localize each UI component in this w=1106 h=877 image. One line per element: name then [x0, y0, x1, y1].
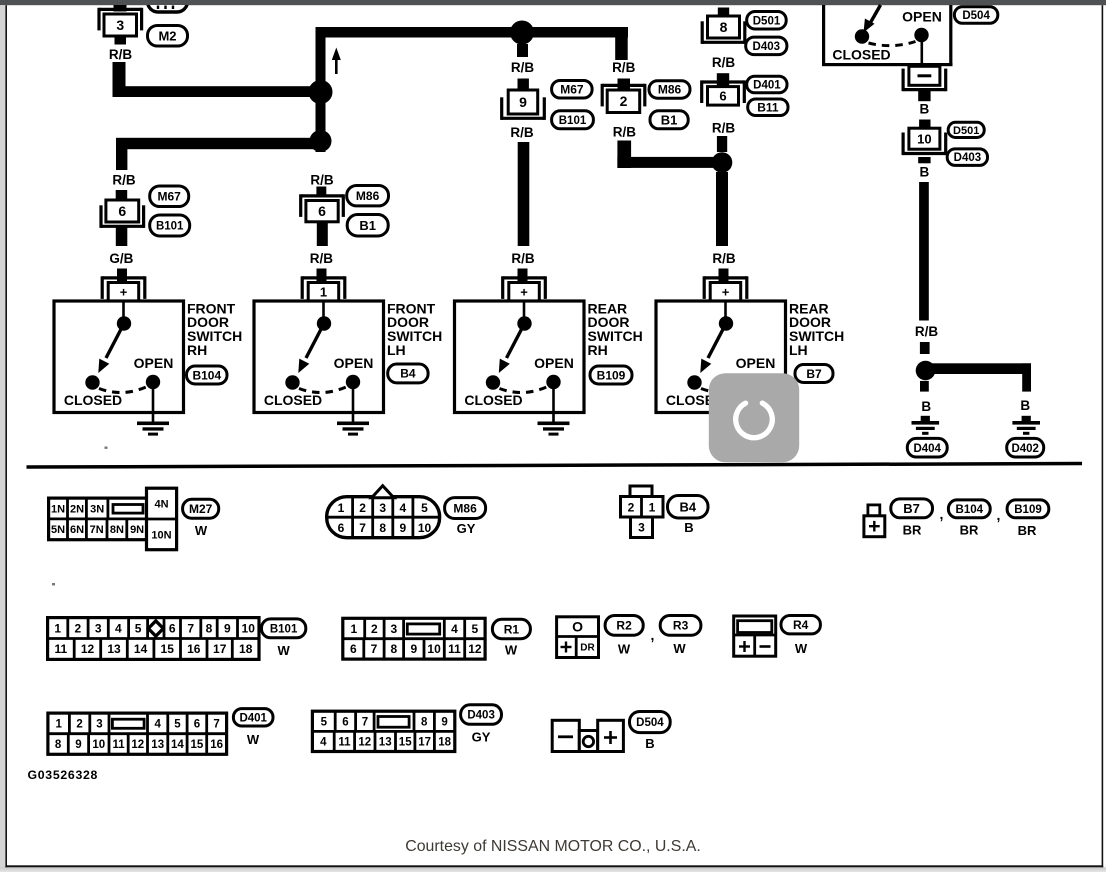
svg-text:15: 15 — [161, 642, 175, 656]
svg-text:LH: LH — [789, 342, 808, 358]
svg-text:B101: B101 — [156, 221, 184, 233]
svg-text:8: 8 — [55, 739, 62, 751]
connector ref D403 lower — [947, 149, 987, 166]
svg-text:6: 6 — [350, 642, 357, 656]
svg-text:9: 9 — [399, 521, 406, 535]
arrow marker up — [335, 56, 338, 74]
junction dot A1 — [309, 80, 333, 104]
svg-text:9: 9 — [441, 716, 447, 728]
svg-text:3: 3 — [96, 719, 102, 731]
connector ref B109 — [590, 366, 632, 384]
connector ref D404 — [907, 438, 947, 457]
svg-text:M86: M86 — [453, 501, 477, 515]
svg-text:B11: B11 — [757, 101, 779, 115]
wire stub above connector 8 — [718, 8, 729, 17]
connector ref B11 — [748, 99, 788, 116]
svg-text:6N: 6N — [70, 524, 84, 536]
connector ref D401 bottom — [233, 709, 273, 726]
svg-text:12: 12 — [358, 737, 371, 749]
connector ref B109 bottom — [1007, 500, 1049, 518]
svg-text:W: W — [195, 523, 208, 538]
svg-text:R3: R3 — [673, 619, 689, 633]
svg-text:D403: D403 — [753, 41, 781, 53]
svg-text:1: 1 — [54, 621, 61, 635]
svg-text:M86: M86 — [658, 83, 682, 97]
svg-text:2: 2 — [76, 719, 82, 731]
svg-text:2: 2 — [359, 501, 366, 515]
connector ref B7 bottom — [891, 499, 933, 518]
svg-text:,: , — [997, 507, 1001, 523]
junction dot C — [916, 361, 936, 381]
svg-text:CLOSED: CLOSED — [64, 392, 122, 408]
svg-text:5: 5 — [135, 621, 142, 635]
svg-text:W: W — [618, 642, 631, 657]
dashed arc clipped switch — [869, 42, 916, 46]
connector face D403 — [312, 711, 454, 751]
svg-text:18: 18 — [438, 737, 451, 749]
wire stub into rear door switch RH — [518, 269, 528, 284]
svg-text:3: 3 — [391, 622, 398, 636]
svg-text:12: 12 — [468, 642, 482, 656]
svg-text:10N: 10N — [151, 529, 171, 541]
wire stub into front door switch LH — [317, 269, 327, 284]
svg-text:7: 7 — [371, 642, 378, 656]
svg-text:1: 1 — [649, 500, 656, 514]
svg-text:R/B: R/B — [310, 172, 334, 187]
svg-text:10: 10 — [418, 521, 432, 535]
connector ref R2 — [605, 616, 643, 636]
svg-text:15: 15 — [399, 737, 412, 749]
svg-text:14: 14 — [134, 642, 148, 656]
svg-text:12: 12 — [81, 642, 95, 656]
svg-text:B7: B7 — [903, 501, 920, 516]
svg-text:BR: BR — [1018, 523, 1037, 538]
svg-text:RH: RH — [187, 342, 207, 358]
svg-text:G/B: G/B — [109, 251, 133, 266]
connector M67/B101 pin 6 — [106, 200, 139, 222]
wire label R/B — [115, 36, 127, 45]
svg-text:7: 7 — [359, 521, 366, 535]
svg-text:D403: D403 — [467, 710, 495, 722]
svg-text:B: B — [920, 164, 930, 179]
wire below connector 6 left — [116, 227, 128, 246]
svg-text:M67: M67 — [158, 190, 182, 204]
svg-text:16: 16 — [210, 739, 223, 751]
separator line — [27, 462, 1083, 469]
svg-text:OPEN: OPEN — [134, 355, 174, 371]
svg-text:R/B: R/B — [712, 251, 736, 266]
svg-text:11: 11 — [448, 642, 461, 656]
svg-text:8: 8 — [379, 521, 386, 535]
wire stub below junction C — [920, 381, 929, 392]
svg-text:7: 7 — [187, 621, 194, 635]
svg-text:BR: BR — [960, 523, 979, 538]
svg-text:G03526328: G03526328 — [28, 768, 99, 782]
svg-text:+: + — [120, 285, 128, 300]
svg-text:5: 5 — [421, 501, 428, 515]
ground D402 — [1022, 416, 1031, 422]
stray mark 2 — [52, 583, 55, 585]
wire from junction A2 left to front door switch LH branch — [116, 138, 321, 149]
connector ref B104 bottom — [948, 500, 990, 518]
svg-text:R2: R2 — [616, 619, 632, 633]
loading spinner overlay — [709, 373, 799, 462]
svg-text:4: 4 — [320, 737, 327, 749]
connector ref R1 — [492, 619, 530, 638]
svg-text:B104: B104 — [192, 368, 221, 382]
svg-text:11: 11 — [55, 642, 68, 656]
connector ref D401 — [747, 76, 787, 93]
connector ref M86 — [347, 186, 389, 206]
svg-text:B4: B4 — [679, 499, 696, 514]
svg-text:R/B: R/B — [712, 121, 736, 136]
svg-text:3: 3 — [116, 17, 124, 33]
junction dot A2 — [310, 130, 332, 152]
svg-text:9: 9 — [224, 621, 231, 635]
svg-text:2: 2 — [628, 500, 635, 514]
wire from junction C right and down — [926, 363, 1032, 374]
svg-text:LH: LH — [387, 342, 406, 358]
wire stub into connector 9 — [518, 79, 529, 91]
svg-text:R/B: R/B — [109, 47, 133, 62]
wire below connector 6 center — [317, 222, 328, 246]
wire stub below junction — [517, 44, 528, 57]
connector face B4 — [630, 486, 652, 497]
svg-text:OPEN: OPEN — [334, 355, 374, 371]
connector face D401 — [48, 713, 227, 754]
svg-text:11: 11 — [338, 737, 351, 749]
wire stub into rear door switch LH — [719, 269, 729, 284]
svg-text:2N: 2N — [70, 503, 84, 515]
label FRONT DOOR SWITCH LH — [387, 300, 442, 358]
open contact dot — [914, 28, 928, 42]
connector D501/D403 pin 10 — [909, 128, 940, 149]
connector face M27 — [49, 498, 148, 540]
svg-text:10: 10 — [242, 621, 256, 635]
svg-text:B109: B109 — [1014, 504, 1042, 516]
svg-text:16: 16 — [187, 642, 201, 656]
svg-text:,: , — [940, 506, 944, 522]
connector M2 pin 3 — [99, 8, 142, 11]
svg-text:7N: 7N — [90, 524, 104, 536]
svg-text:6: 6 — [342, 716, 348, 728]
svg-text:9: 9 — [75, 739, 81, 751]
top bus wire — [316, 27, 629, 38]
svg-text:14: 14 — [171, 739, 184, 751]
svg-text:B: B — [920, 101, 930, 116]
connector face B101 — [48, 618, 259, 660]
connector minus pin — [909, 66, 940, 85]
svg-text:R4: R4 — [793, 618, 809, 632]
wire from connector 2 to junction B — [617, 141, 631, 169]
connector ref M2 — [148, 26, 188, 47]
wire stub into connector 6 center — [316, 187, 326, 197]
connector ref B101 — [150, 215, 190, 236]
svg-text:8: 8 — [206, 621, 213, 635]
svg-text:R/B: R/B — [511, 251, 535, 266]
connector ref B4 — [388, 364, 428, 383]
svg-text:OPEN: OPEN — [534, 355, 574, 371]
svg-text:8N: 8N — [110, 524, 124, 536]
svg-text:3N: 3N — [90, 503, 104, 515]
svg-text:4: 4 — [115, 621, 122, 635]
svg-text:B109: B109 — [597, 368, 626, 382]
connector ref B4 bottom — [668, 496, 709, 519]
svg-text:O: O — [572, 619, 583, 635]
svg-text:2: 2 — [371, 622, 378, 636]
svg-text:7: 7 — [213, 719, 219, 731]
svg-text:+: + — [520, 285, 528, 300]
svg-text:8: 8 — [720, 19, 728, 35]
wire from open contact to minus connector — [920, 42, 923, 64]
svg-text:M27: M27 — [189, 502, 213, 516]
svg-text:11: 11 — [113, 739, 126, 751]
clipped switch box top right — [822, 5, 825, 66]
svg-text:OPEN: OPEN — [902, 9, 942, 25]
ground D404 — [921, 416, 930, 422]
svg-text:5: 5 — [174, 719, 181, 731]
svg-text:CLOSED: CLOSED — [264, 392, 322, 408]
connector ref D501 lower — [948, 122, 984, 137]
svg-text:R/B: R/B — [112, 172, 136, 187]
svg-text:17: 17 — [213, 642, 227, 656]
svg-text:6: 6 — [169, 621, 176, 635]
svg-text:10: 10 — [427, 642, 441, 656]
switch body FRONT RH — [54, 301, 184, 413]
junction dot B — [712, 152, 733, 173]
connector ref D501 — [747, 12, 787, 30]
svg-text:Courtesy of NISSAN MOTOR CO.,: Courtesy of NISSAN MOTOR CO., U.S.A. — [405, 838, 701, 855]
connector ref D504 bottom — [630, 712, 671, 733]
svg-text:D402: D402 — [1011, 443, 1039, 455]
connector ref R3 — [660, 616, 701, 636]
svg-text:,: , — [651, 627, 655, 643]
svg-text:M2: M2 — [158, 28, 176, 43]
svg-text:1: 1 — [55, 719, 62, 731]
connector M67/B101 pin 9 — [508, 90, 538, 114]
svg-text:D501: D501 — [753, 15, 781, 27]
svg-text:B101: B101 — [270, 623, 298, 635]
connector ref D504 — [954, 7, 997, 24]
switch body REAR LH — [656, 301, 786, 413]
svg-text:M86: M86 — [356, 189, 380, 203]
svg-text:W: W — [795, 641, 808, 656]
svg-text:6: 6 — [719, 89, 726, 104]
junction dot on top bus — [510, 21, 534, 45]
svg-text:8: 8 — [421, 716, 428, 728]
wire stub to junction C — [920, 342, 930, 354]
connector face B7 battery symbol — [868, 505, 880, 516]
svg-text:5N: 5N — [51, 524, 65, 536]
svg-text:13: 13 — [107, 642, 121, 656]
svg-text:17: 17 — [418, 737, 431, 749]
svg-text:B1: B1 — [661, 112, 678, 127]
svg-text:W: W — [673, 641, 686, 656]
lever arrow in clipped switch — [871, 5, 881, 23]
wire from connector 3 down to junction bus — [113, 62, 126, 97]
bus vertical wire at node A — [316, 27, 326, 152]
connector pin + on REAR LH switch — [704, 276, 747, 279]
svg-text:10: 10 — [917, 131, 931, 146]
svg-text:M67: M67 — [560, 83, 584, 97]
svg-text:4: 4 — [399, 501, 406, 515]
svg-text:13: 13 — [151, 739, 164, 751]
wire stub below minus connector — [918, 91, 930, 101]
svg-text:8: 8 — [391, 642, 398, 656]
connector face R2 — [557, 617, 599, 658]
svg-text:B101: B101 — [559, 115, 587, 127]
svg-text:B: B — [645, 736, 654, 751]
wire from connector 9 to rear door switch RH — [518, 142, 530, 246]
wire stub above connector 3 — [114, 5, 127, 12]
svg-text:W: W — [277, 643, 290, 658]
connector ref D402 — [1007, 438, 1044, 457]
svg-text:4N: 4N — [154, 499, 168, 511]
svg-text:CLOSED: CLOSED — [832, 46, 890, 62]
wire corner from top bus down to connector 2 — [615, 27, 628, 60]
connector ref D403 — [746, 37, 787, 55]
svg-text:B: B — [921, 399, 931, 414]
svg-text:18: 18 — [239, 642, 253, 656]
svg-text:3: 3 — [379, 501, 386, 515]
connector ref B1 right — [650, 111, 688, 129]
svg-text:B: B — [684, 520, 693, 535]
svg-text:D504: D504 — [962, 10, 990, 22]
svg-text:W: W — [247, 732, 260, 747]
svg-text:R/B: R/B — [511, 60, 535, 75]
svg-text:D504: D504 — [636, 717, 664, 729]
connector pin + on REAR RH switch — [503, 276, 546, 279]
svg-text:6: 6 — [318, 203, 326, 219]
connector ref M27 — [183, 499, 219, 518]
svg-text:R/B: R/B — [612, 60, 636, 75]
svg-text:R/B: R/B — [510, 125, 534, 140]
svg-text:5: 5 — [321, 716, 328, 728]
connector M86/B1 pin 6 — [301, 194, 344, 197]
svg-text:DR: DR — [580, 643, 595, 654]
svg-text:15: 15 — [191, 739, 204, 751]
svg-text:9: 9 — [410, 642, 417, 656]
svg-text:B1: B1 — [359, 218, 376, 233]
connector D501/D403 pin 8 — [708, 16, 740, 38]
svg-text:2: 2 — [75, 621, 82, 635]
svg-text:3: 3 — [638, 521, 645, 535]
wire stub into front door switch RH — [117, 269, 127, 284]
svg-text:BR: BR — [903, 523, 922, 538]
wire stub to junction B — [717, 136, 727, 152]
ground below switch — [152, 389, 155, 422]
svg-text:D401: D401 — [239, 712, 267, 724]
label FRONT DOOR SWITCH RH — [187, 300, 242, 358]
svg-text:D501: D501 — [953, 125, 979, 137]
svg-text:1N: 1N — [51, 503, 65, 515]
wire stub into connector 10 — [919, 120, 930, 129]
connector ref B7 — [795, 365, 833, 383]
connector pin 1 on FRONT LH switch — [302, 276, 345, 279]
connector D401/B11 pin 6 — [702, 80, 745, 83]
svg-text:CLOSED: CLOSED — [464, 392, 522, 408]
svg-text:OPEN: OPEN — [736, 355, 776, 371]
connector ref M67 — [150, 186, 189, 207]
svg-text:1: 1 — [320, 285, 327, 300]
svg-text:R/B: R/B — [712, 55, 736, 70]
switch body REAR RH — [455, 301, 585, 413]
svg-text:R1: R1 — [504, 622, 520, 636]
connector ref B104 — [187, 366, 228, 384]
connector ref D403 bottom — [461, 705, 502, 725]
svg-text:4: 4 — [451, 622, 458, 636]
svg-text:R/B: R/B — [915, 324, 939, 339]
svg-text:R/B: R/B — [613, 124, 637, 139]
svg-text:B7: B7 — [806, 367, 822, 381]
svg-text:13: 13 — [379, 737, 392, 749]
svg-text:6: 6 — [338, 521, 345, 535]
svg-text:1: 1 — [338, 501, 345, 515]
svg-text:6: 6 — [118, 203, 126, 219]
svg-text:GY: GY — [472, 730, 491, 745]
svg-text:R/B: R/B — [310, 251, 334, 266]
svg-text:D401: D401 — [753, 80, 781, 92]
connector face R4 — [734, 616, 776, 656]
connector ref M86 bottom — [445, 498, 486, 519]
svg-text:GY: GY — [457, 521, 476, 536]
svg-text:1: 1 — [350, 622, 357, 636]
svg-text:6: 6 — [194, 719, 200, 731]
connector ref M86 right — [649, 81, 690, 99]
svg-text:W: W — [505, 643, 518, 658]
svg-text:9N: 9N — [130, 524, 144, 536]
svg-text:9: 9 — [519, 94, 527, 110]
svg-text:2: 2 — [620, 93, 628, 109]
connector face D504 — [552, 720, 579, 751]
svg-text:RH: RH — [588, 342, 608, 358]
wire stub into connector 6 right — [717, 73, 729, 86]
label REAR DOOR SWITCH RH — [588, 300, 643, 358]
clipped connector oval above M2 — [148, 0, 188, 12]
closed contact dot — [855, 29, 869, 43]
stray mark 1 — [105, 447, 108, 449]
wire stub into connector 2 — [618, 79, 631, 91]
ground below switch — [352, 389, 355, 422]
svg-text:7: 7 — [362, 716, 368, 728]
svg-text:B: B — [1020, 398, 1030, 413]
ground below switch — [552, 389, 555, 422]
svg-text:5: 5 — [472, 622, 479, 636]
svg-text:B104: B104 — [956, 504, 984, 516]
wire stub into connector 6 left — [116, 190, 128, 201]
wire from junction B to rear door switch LH — [716, 172, 728, 246]
connector ref B101 bottom — [262, 619, 306, 638]
svg-text:10: 10 — [92, 739, 105, 751]
switch body FRONT LH — [254, 301, 384, 413]
svg-text:4: 4 — [154, 719, 161, 731]
svg-text:D403: D403 — [954, 152, 982, 164]
svg-text:12: 12 — [131, 739, 144, 751]
svg-text:D404: D404 — [913, 443, 941, 455]
svg-text:+: + — [722, 285, 730, 300]
connector face R1 — [343, 618, 485, 659]
connector ref B101 right — [552, 111, 594, 129]
connector face M86 — [327, 497, 440, 538]
long wire down right side — [919, 182, 929, 321]
connector ref R4 — [781, 616, 820, 634]
wire stub below connector 10 — [918, 157, 930, 163]
connector ref B1 — [347, 215, 388, 237]
label REAR DOOR SWITCH LH — [789, 300, 844, 358]
connector M86/B1 pin 2 — [602, 84, 645, 87]
svg-text:3: 3 — [95, 621, 102, 635]
connector pin + on FRONT RH switch — [102, 276, 145, 279]
